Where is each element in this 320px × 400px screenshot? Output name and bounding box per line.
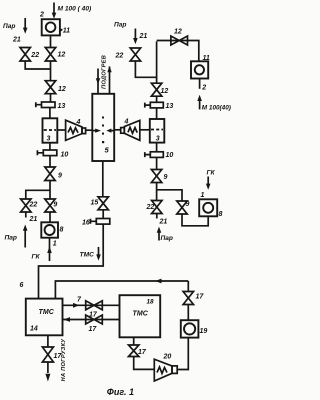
svg-text:16: 16 <box>82 220 90 227</box>
svg-text:20: 20 <box>163 354 172 361</box>
svg-text:21: 21 <box>159 219 168 226</box>
svg-text:22: 22 <box>30 52 39 59</box>
svg-text:21: 21 <box>139 33 148 40</box>
svg-text:ТМС: ТМС <box>80 252 95 259</box>
svg-text:11: 11 <box>63 28 70 35</box>
svg-text:21: 21 <box>29 216 38 223</box>
svg-text:1: 1 <box>53 241 57 248</box>
svg-text:13: 13 <box>166 103 174 110</box>
svg-text:8: 8 <box>60 227 64 234</box>
svg-text:ТМС: ТМС <box>133 311 149 318</box>
svg-text:12: 12 <box>58 86 66 93</box>
svg-text:17: 17 <box>196 294 205 301</box>
svg-text:12: 12 <box>161 88 169 95</box>
svg-text:18: 18 <box>147 299 155 306</box>
svg-text:НА ПОГРУЗКУ: НА ПОГРУЗКУ <box>61 338 67 382</box>
svg-text:ПОДОГРЕВ: ПОДОГРЕВ <box>101 55 107 89</box>
svg-text:22: 22 <box>29 202 38 209</box>
svg-text:14: 14 <box>30 326 38 333</box>
svg-text:6: 6 <box>20 282 24 289</box>
svg-text:8: 8 <box>219 211 223 218</box>
svg-text:3: 3 <box>156 136 160 143</box>
svg-text:9: 9 <box>186 201 190 208</box>
svg-text:22: 22 <box>115 53 124 60</box>
svg-text:Фиг. 1: Фиг. 1 <box>107 387 134 397</box>
svg-text:4: 4 <box>76 119 81 126</box>
svg-text:3: 3 <box>47 136 51 143</box>
svg-text:4: 4 <box>124 119 129 126</box>
svg-text:М 100(40): М 100(40) <box>202 105 231 112</box>
svg-text:19: 19 <box>200 328 208 335</box>
svg-text:2: 2 <box>201 85 206 92</box>
svg-text:9: 9 <box>53 202 57 209</box>
svg-text:17: 17 <box>138 349 147 356</box>
svg-text:15: 15 <box>91 200 99 207</box>
svg-text:1: 1 <box>201 192 205 199</box>
svg-text:12: 12 <box>58 52 66 59</box>
svg-text:17: 17 <box>89 326 98 333</box>
svg-text:ТМС: ТМС <box>39 309 55 316</box>
svg-text:Пар: Пар <box>3 23 15 30</box>
svg-text:10: 10 <box>166 152 174 159</box>
svg-text:ГК: ГК <box>32 254 41 261</box>
svg-text:9: 9 <box>164 174 168 181</box>
svg-text:ГК: ГК <box>207 170 216 177</box>
svg-text:21: 21 <box>12 37 21 44</box>
svg-text:13: 13 <box>58 103 66 110</box>
svg-text:11: 11 <box>203 55 210 62</box>
svg-text:10: 10 <box>61 152 69 159</box>
svg-text:9: 9 <box>58 173 62 180</box>
svg-text:М 100 ( 40): М 100 ( 40) <box>58 6 92 13</box>
svg-text:Пар: Пар <box>5 235 17 242</box>
svg-text:12: 12 <box>174 29 182 36</box>
svg-text:22: 22 <box>146 204 155 211</box>
svg-text:Пар: Пар <box>114 22 126 29</box>
svg-text:Пар: Пар <box>161 235 173 242</box>
svg-text:2: 2 <box>39 12 44 19</box>
